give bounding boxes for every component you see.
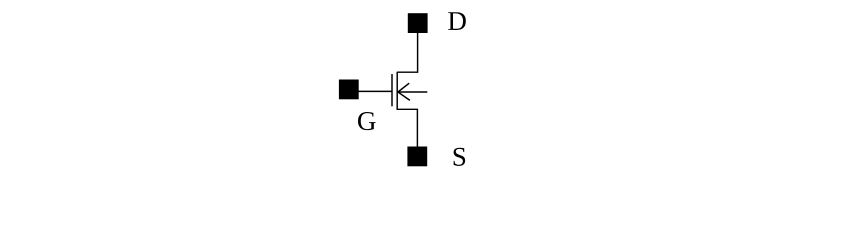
- label G (gate): [358, 112, 376, 130]
- label S (source): [454, 148, 466, 166]
- transistor M1 bulk arrowhead: [398, 83, 410, 100]
- label D (drain): [448, 12, 466, 30]
- wire gate lead: [358, 90, 392, 92]
- wire drain lead: [397, 33, 417, 73]
- pin square D: [408, 13, 428, 33]
- transistor M1 channel bar: [396, 72, 398, 110]
- pin square S: [407, 147, 427, 167]
- pin square G: [339, 80, 359, 100]
- wire source lead: [397, 109, 417, 147]
- wire bulk lead: [398, 91, 428, 93]
- transistor M1 gate bar: [391, 74, 393, 106]
